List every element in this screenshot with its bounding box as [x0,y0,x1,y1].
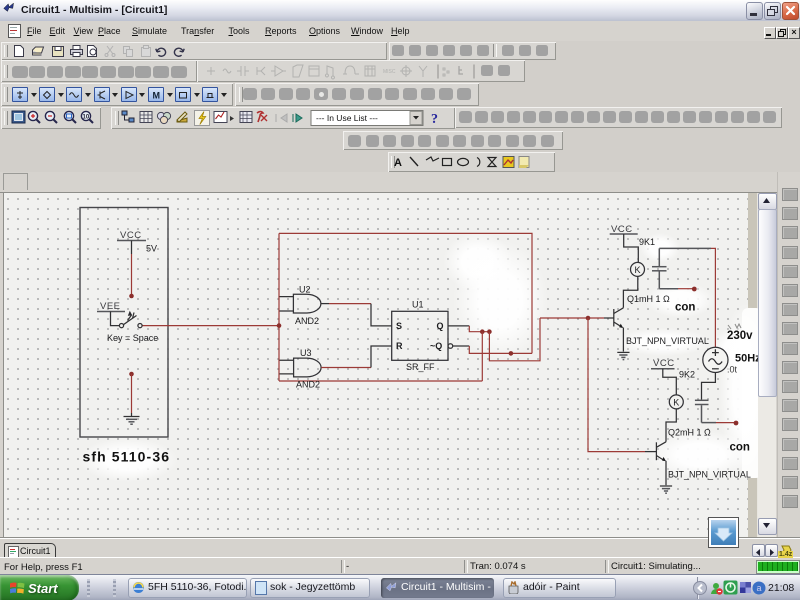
svg-text:VEE: VEE [100,301,121,312]
row3 right panel [235,83,479,106]
svg-text:con: con [675,302,695,314]
sfh 5110-36 enclosure box [80,208,168,438]
svg-text:S: S [396,321,402,331]
svg-text:AND2: AND2 [296,380,320,390]
svg-text:50Hz: 50Hz [735,353,760,365]
svg-text:U2: U2 [299,285,311,295]
svg-text:VCC: VCC [653,358,675,369]
small gray marks above label [728,324,741,329]
svg-text:K: K [635,265,641,275]
capacitor C1 [658,248,660,266]
svg-text:K: K [673,397,679,407]
svg-text:AND2: AND2 [295,316,319,326]
node: junction dot on ~Q line [509,351,514,356]
gap strip with small empty box [0,172,800,193]
svg-text:SR_FF: SR_FF [406,362,435,372]
svg-text:~Q: ~Q [430,341,442,351]
node: open end dot [692,287,697,292]
quick launch grips [87,579,90,597]
task buttons [128,578,247,598]
wire: upper transistor base [540,317,604,319]
row6 annotation toolbar [388,152,555,172]
node: wire end dot [129,294,134,299]
svg-text:.0t: .0t [727,365,738,375]
node: open end dot (lower) [734,421,739,426]
relay coil K2 (circle K) [669,395,683,409]
gate body U3 [294,358,322,377]
capacitor C2 [702,373,716,400]
svg-text:Q1mH 1 Ω: Q1mH 1 Ω [627,294,670,304]
node: junction dot B [487,329,492,334]
svg-text:Q: Q [437,321,444,331]
wire: cap bottom open end (lower) [702,422,717,424]
switch J1 (Key = Space) [111,312,120,326]
svg-text:U1: U1 [412,300,424,310]
transistor Q2 BJT_NPN_VIRTUAL [655,442,657,460]
svg-text:?: ? [431,112,438,127]
row2 right panel [197,60,525,82]
svg-text:BJT_NPN_VIRTUAL: BJT_NPN_VIRTUAL [668,470,751,480]
row3 left panel (component group buttons) [1,83,233,106]
blue floating download icon [708,517,739,548]
svg-text:Key = Space: Key = Space [107,333,158,343]
wire: ~Q output jog [453,345,470,347]
svg-text:a: a [756,583,761,593]
wire: Q output jog [448,325,469,327]
pin stubs U3 [280,360,294,374]
svg-text:U3: U3 [300,348,312,358]
ground (switch block) [124,417,140,425]
ground (Q2 emitter) [660,486,672,493]
svg-text:9K1: 9K1 [639,237,655,247]
svg-text:BJT_NPN_VIRTUAL: BJT_NPN_VIRTUAL [626,336,709,346]
output wire U2 [321,303,329,305]
vertical scrollbar [758,193,776,537]
wire: VCC to switch node [131,254,133,296]
pin stubs U2 [280,297,294,311]
wire: bottom rail U3 to V1 [279,380,482,382]
tray [697,577,698,599]
svg-text:9K2: 9K2 [679,370,695,380]
node: junction at gate bus / switch wire [277,323,282,328]
wire: switch output to gate bus [143,325,280,327]
yellow busy cursor bottom-right [780,545,798,558]
svg-text:Q2mH 1 Ω: Q2mH 1 Ω [668,428,711,438]
relay coil K1 (circle K) [631,262,645,276]
inversion bubble on ~Q [448,344,453,349]
wire: V1 down to bottom rail [481,332,483,381]
wire: lower stub to ground [129,372,134,377]
ground (Q1 emitter) [617,352,629,359]
svg-text:A: A [394,157,402,169]
node: junction dot A [480,329,485,334]
wire: left vertical bus at AND gates [278,233,280,381]
svg-text:VCC: VCC [120,230,142,241]
row2 left panel [1,60,197,82]
row4 panels [1,107,101,129]
wire: V3 down to lower transistor base [588,318,645,452]
svg-text:sfh 5110-36: sfh 5110-36 [83,449,171,465]
transistor Q1 BJT_NPN_VIRTUAL [613,309,615,327]
row1 left panel [1,42,387,60]
svg-text:230v: 230v [727,330,753,342]
row5 floating squares panel [343,131,563,150]
svg-text:MISC: MISC [383,69,396,75]
output wire U3 [321,367,371,369]
h scroll arrows [752,544,765,557]
row1 right panel [389,42,556,60]
svg-text:con: con [730,442,750,454]
start button [0,575,79,600]
svg-text:--- In Use List ---: --- In Use List --- [316,113,378,123]
wire: cap top to AC line [659,247,711,249]
svg-text:5V: 5V [146,244,157,254]
svg-text:10: 10 [83,115,90,121]
right icon column [777,172,800,537]
wire: cap bottom open end [659,288,678,290]
gate body U2 [293,294,321,313]
wire: top rail from U3 area to right leg [279,233,532,353]
svg-text:R: R [396,341,403,351]
wire: V2 down and link right, up to base line [489,318,540,361]
node: junction at base split [586,316,591,321]
svg-text:M: M [153,91,161,101]
